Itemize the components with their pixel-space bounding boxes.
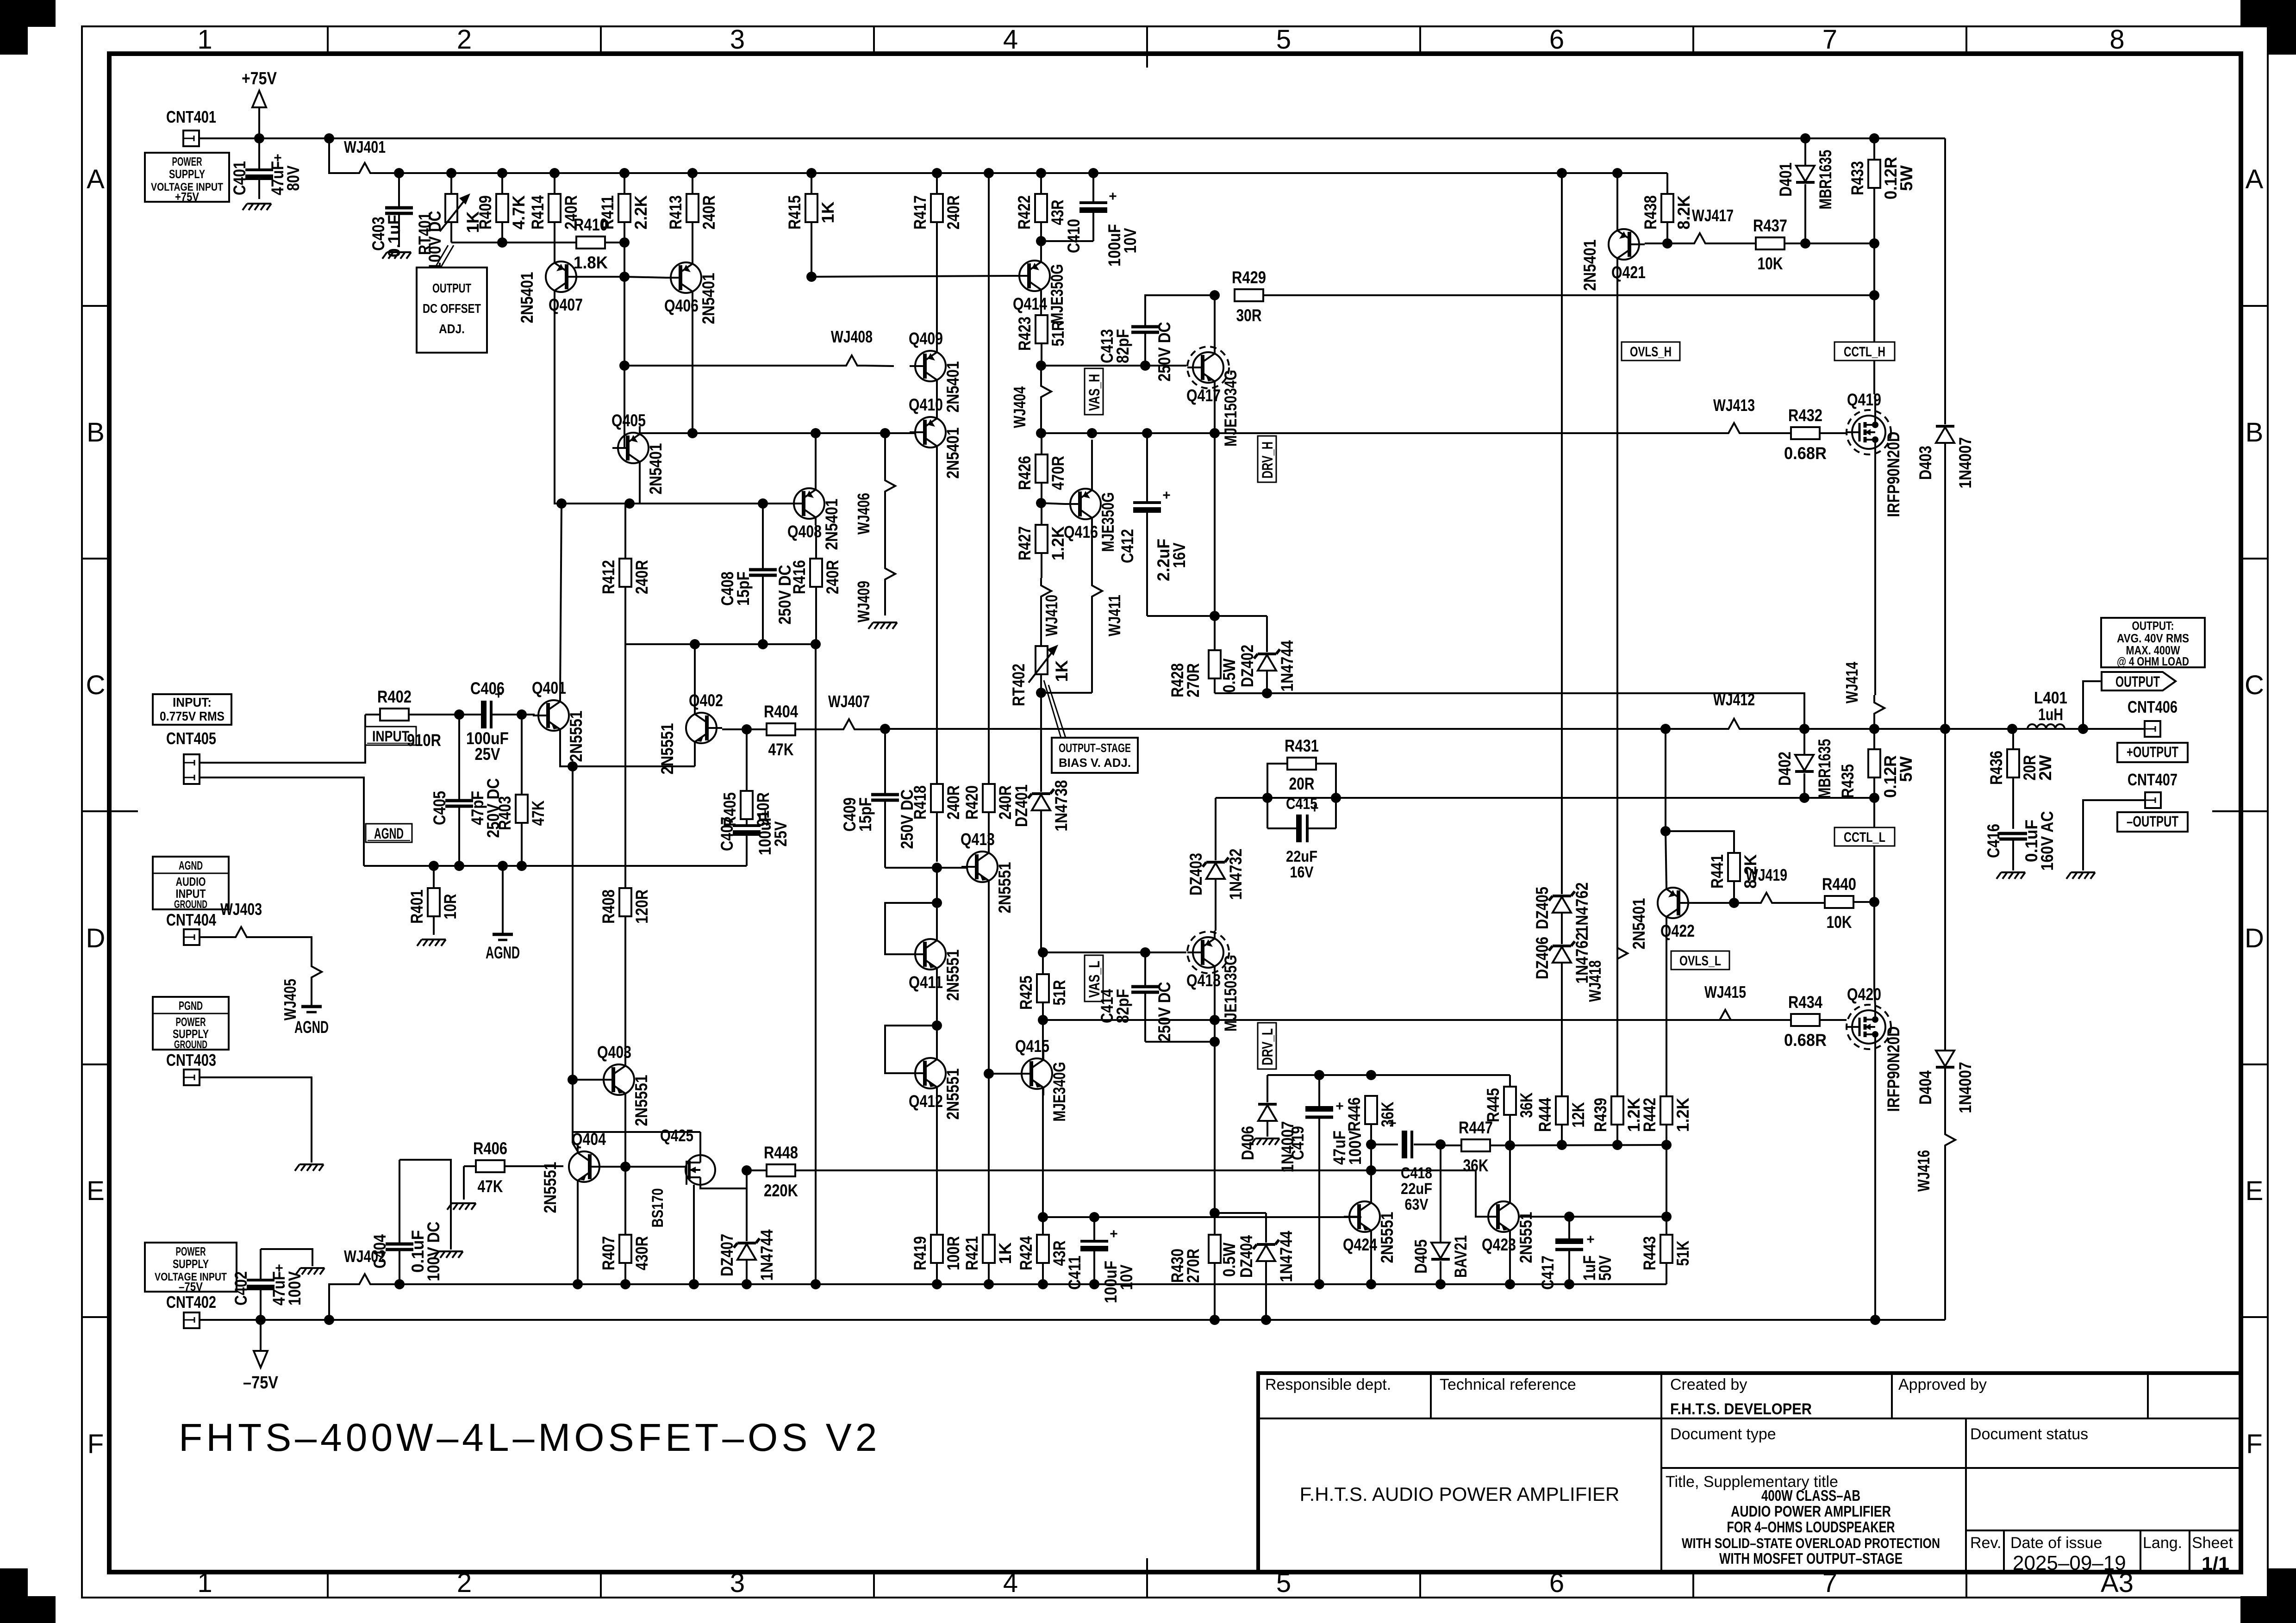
- svg-text:2N5551: 2N5551: [1378, 1212, 1397, 1263]
- mosfet Q420: [1847, 985, 1903, 1112]
- resistor R407: [599, 1094, 651, 1284]
- svg-text:Approved by: Approved by: [1898, 1376, 1987, 1393]
- ground below C403: [382, 252, 411, 259]
- resistor R445: [1484, 1087, 1536, 1122]
- wire to R421: [988, 1074, 990, 1235]
- node Q406 collector: [687, 428, 698, 438]
- svg-text:1N4744: 1N4744: [1278, 640, 1297, 691]
- node CCTL_L R440: [1869, 897, 1879, 907]
- node C402: [256, 1315, 266, 1325]
- svg-text:100V: 100V: [1346, 1131, 1365, 1165]
- svg-text:DRV_L: DRV_L: [1259, 1028, 1276, 1065]
- svg-text:–75V: –75V: [179, 1280, 203, 1293]
- svg-text:47K: 47K: [768, 740, 794, 759]
- svg-text:R435: R435: [1838, 764, 1857, 798]
- wire Q424 base line: [1043, 1216, 1361, 1218]
- svg-text:220K: 220K: [764, 1181, 798, 1200]
- svg-text:WJ412: WJ412: [1713, 690, 1755, 709]
- svg-text:+: +: [1109, 189, 1117, 204]
- wire DRV_H down: [1214, 433, 1216, 616]
- svg-text:Created by: Created by: [1670, 1376, 1747, 1393]
- svg-text:47K: 47K: [478, 1177, 503, 1196]
- svg-text:1N4732: 1N4732: [1226, 849, 1245, 900]
- svg-text:1K: 1K: [1052, 660, 1071, 682]
- node Q424 rail: [1366, 1279, 1376, 1289]
- svg-text:AGND: AGND: [179, 858, 203, 872]
- svg-text:Q424: Q424: [1343, 1235, 1377, 1254]
- svg-text:MBR1635: MBR1635: [1815, 739, 1834, 799]
- resistor R436: [1987, 729, 2055, 829]
- svg-text:1N4738: 1N4738: [1052, 780, 1071, 832]
- svg-text:2N5551: 2N5551: [567, 711, 586, 762]
- wire Q414 emitter: [1040, 241, 1042, 261]
- svg-text:Document status: Document status: [1970, 1425, 2088, 1443]
- svg-text:E: E: [87, 1176, 105, 1206]
- node RT401: [446, 168, 456, 178]
- svg-text:R427: R427: [1015, 526, 1034, 560]
- svg-text:WJ407: WJ407: [828, 692, 870, 711]
- wire rail to R438: [1666, 173, 1668, 194]
- wire Q425 source: [700, 1170, 747, 1188]
- wire jumper WJ414: [1842, 662, 1884, 729]
- wire -output to ground: [2083, 800, 2145, 871]
- node R441 bottom: [1729, 898, 1739, 908]
- wire input gnd: [200, 777, 364, 866]
- info box AGND: [153, 857, 229, 911]
- node C417 rail: [1564, 1279, 1574, 1289]
- wire Q404 coll to Q425 drain: [573, 1131, 700, 1133]
- info box PGND: [153, 997, 229, 1051]
- wire R445 to Q423: [1509, 1115, 1511, 1195]
- transistor Q409: [909, 329, 962, 413]
- connector CNT401: [166, 107, 216, 146]
- svg-text:IRFP90N20D: IRFP90N20D: [1884, 1026, 1903, 1112]
- wire output to R441 line: [1665, 729, 1666, 831]
- svg-text:1: 1: [197, 25, 212, 55]
- connector CNT404 label: [166, 910, 216, 929]
- svg-text:GROUND: GROUND: [174, 898, 207, 911]
- node R413: [687, 168, 698, 178]
- net label CCTL_L: [1834, 827, 1895, 846]
- svg-text:240R: 240R: [823, 560, 842, 594]
- node CCTL_H: [1869, 290, 1879, 300]
- svg-text:Q414: Q414: [1013, 294, 1047, 313]
- svg-text:100R: 100R: [944, 1236, 963, 1270]
- wire Q409 to Q410: [936, 388, 938, 410]
- node DZ402 bottom: [1262, 688, 1272, 698]
- resistor R401: [407, 866, 460, 935]
- node R421 rail: [984, 1279, 994, 1289]
- svg-text:F: F: [87, 1429, 104, 1459]
- capacitor C405: [430, 715, 503, 866]
- svg-text:C415: C415: [1286, 795, 1317, 813]
- svg-text:AGND: AGND: [486, 943, 520, 962]
- wire output line right: [1747, 728, 2145, 730]
- svg-text:INPUT:: INPUT:: [173, 695, 212, 709]
- wire Q412 base loop: [885, 1026, 937, 1073]
- wire jumper WJ404: [1010, 366, 1051, 433]
- node R435 bottom: [1869, 793, 1879, 803]
- svg-text:R409: R409: [476, 195, 495, 230]
- svg-text:F.H.T.S. AUDIO POWER AMPLIFIER: F.H.T.S. AUDIO POWER AMPLIFIER: [1300, 1483, 1620, 1505]
- capacitor C414: [1098, 952, 1174, 1042]
- svg-text:+: +: [1162, 488, 1171, 503]
- wire jumper WJ411: [1041, 520, 1124, 693]
- resistor R441: [1708, 853, 1760, 903]
- wire offset bus: [451, 242, 577, 243]
- title block frame: [1258, 1373, 2241, 1572]
- svg-text:R419: R419: [911, 1236, 930, 1270]
- node DRV_L Q418: [1210, 1015, 1220, 1025]
- resistor R412: [599, 504, 651, 644]
- wire Q420 source to rail: [1874, 1048, 1876, 1320]
- svg-text:@ 4 OHM LOAD: @ 4 OHM LOAD: [2117, 654, 2189, 668]
- connector CNT402 label: [166, 1293, 216, 1312]
- svg-text:22uF: 22uF: [1401, 1180, 1432, 1198]
- svg-text:R440: R440: [1822, 875, 1856, 894]
- node R439 bus: [1612, 1140, 1622, 1150]
- wire jumper WJ403: [220, 900, 262, 937]
- svg-text:R443: R443: [1640, 1236, 1659, 1270]
- svg-text:CNT404: CNT404: [166, 910, 216, 929]
- node R441 line: [1660, 826, 1671, 836]
- svg-text:240R: 240R: [699, 195, 718, 230]
- inductor L401: [2026, 688, 2067, 729]
- svg-text:D404: D404: [1916, 1070, 1935, 1105]
- resistor R448: [764, 1143, 798, 1200]
- svg-text:R401: R401: [407, 889, 426, 924]
- svg-text:470R: 470R: [1048, 456, 1067, 490]
- wire Q424 emitter: [1370, 1237, 1372, 1284]
- connector CNT404: [184, 929, 200, 945]
- resistor R416: [790, 525, 842, 644]
- wire Q423 emitter: [1509, 1237, 1511, 1284]
- wire Q401 collector: [560, 504, 562, 694]
- svg-text:+OUTPUT: +OUTPUT: [2127, 744, 2178, 760]
- node C411 rail: [1089, 1279, 1099, 1289]
- svg-text:R434: R434: [1788, 993, 1822, 1012]
- svg-text:+75V: +75V: [175, 190, 200, 204]
- title block text: [1265, 1376, 2233, 1574]
- svg-text:B: B: [87, 417, 105, 448]
- svg-text:5W: 5W: [1897, 165, 1916, 191]
- svg-text:47K: 47K: [529, 800, 548, 826]
- sheet name FHTS-400W-4L-MOSFET-OS V2: [179, 1416, 880, 1459]
- svg-text:WJ418: WJ418: [1585, 960, 1604, 1002]
- svg-text:0.775V RMS: 0.775V RMS: [160, 709, 225, 723]
- capacitor C403: [369, 173, 444, 271]
- node C419 top: [1314, 1070, 1324, 1080]
- wire R417 to Q409: [936, 336, 938, 344]
- zener DZ401: [1012, 780, 1071, 953]
- svg-text:3: 3: [730, 1568, 745, 1598]
- svg-text:WITH SOLID–STATE OVERLOAD PROT: WITH SOLID–STATE OVERLOAD PROTECTION: [1682, 1535, 1940, 1551]
- svg-text:F: F: [2246, 1429, 2262, 1459]
- svg-text:0.68R: 0.68R: [1784, 444, 1827, 463]
- svg-text:R421: R421: [962, 1236, 981, 1270]
- capacitor C416: [1984, 811, 2057, 871]
- svg-text:OUTPUT: OUTPUT: [432, 281, 471, 295]
- wire CNT404: [200, 936, 228, 938]
- node C414 top: [1140, 947, 1150, 958]
- net label -OUTPUT: [2117, 812, 2188, 832]
- svg-text:51R: 51R: [1048, 321, 1067, 347]
- svg-text:C407: C407: [717, 817, 736, 851]
- resistor R433: [1848, 138, 1916, 243]
- node R424 rail: [1038, 1279, 1048, 1289]
- wire output to D404: [1944, 729, 1946, 1051]
- svg-text:CNT403: CNT403: [166, 1051, 216, 1070]
- node R415: [806, 168, 817, 178]
- net label VAS_L: [1085, 955, 1103, 1001]
- node D401 bottom: [1800, 238, 1810, 249]
- node long vertical: [984, 168, 994, 178]
- svg-text:120R: 120R: [632, 889, 651, 924]
- wire WJ419 to R440: [1779, 902, 1825, 904]
- resistor R443: [1640, 1217, 1692, 1284]
- resistor R429: [1232, 268, 1266, 325]
- wire -75V rail: [200, 1319, 1945, 1321]
- transistor Q403: [597, 1043, 651, 1126]
- svg-text:R424: R424: [1017, 1236, 1036, 1270]
- svg-text:3: 3: [730, 25, 745, 55]
- resistor R437: [1753, 216, 1787, 273]
- wire DRV_H: [1041, 432, 1721, 434]
- node output feedback: [880, 724, 890, 734]
- wire WJ403 corner: [254, 937, 312, 959]
- svg-text:C410: C410: [1064, 219, 1083, 253]
- transistor Q423: [1482, 1195, 1535, 1263]
- connector CNT407: [2145, 792, 2161, 808]
- svg-text:WJ410: WJ410: [1042, 595, 1061, 636]
- capacitor C407: [717, 806, 790, 866]
- capacitor C409: [840, 729, 917, 868]
- transistor Q401: [532, 678, 586, 762]
- stub: [624, 1058, 626, 1065]
- svg-text:2N5401: 2N5401: [699, 273, 718, 324]
- wire WJ408 to Q409: [865, 366, 894, 366]
- ground below C416: [1997, 872, 2025, 879]
- wire R425 to Q415: [1042, 1020, 1044, 1058]
- wire y1392: [625, 643, 816, 645]
- svg-text:R445: R445: [1484, 1088, 1503, 1122]
- resistor R438: [1641, 194, 1693, 243]
- svg-text:WJ405: WJ405: [281, 979, 299, 1020]
- svg-text:R422: R422: [1015, 195, 1034, 230]
- node D402: [1799, 724, 1809, 734]
- wire Q411 base loop: [885, 903, 937, 954]
- transistor Q422: [1629, 881, 1695, 950]
- svg-text:240R: 240R: [944, 195, 963, 230]
- svg-text:DC OFFSET: DC OFFSET: [423, 301, 481, 316]
- svg-text:DZ401: DZ401: [1012, 784, 1031, 827]
- resistor R403: [495, 715, 548, 866]
- svg-text:2N5551: 2N5551: [995, 862, 1014, 914]
- net label VAS_H: [1085, 368, 1103, 415]
- wire Q416 emitter up: [1091, 440, 1093, 488]
- node D401 top: [1800, 133, 1810, 143]
- node Q421 emitter: [1612, 168, 1622, 178]
- svg-text:INPUT: INPUT: [372, 728, 409, 745]
- svg-text:R448: R448: [764, 1143, 798, 1162]
- svg-text:+: +: [1335, 1099, 1344, 1114]
- transistor Q421: [1580, 223, 1646, 291]
- node R414: [549, 168, 560, 178]
- node Q404 emitter rail: [573, 1279, 583, 1289]
- svg-text:50V: 50V: [1596, 1255, 1615, 1281]
- node Q425 R448: [742, 1165, 752, 1175]
- wire to WJ402: [329, 1284, 352, 1320]
- node R409 bottom: [497, 237, 507, 248]
- wire R431 left: [1267, 764, 1287, 798]
- node L401 out: [2078, 724, 2088, 734]
- svg-text:16V: 16V: [1170, 542, 1189, 568]
- svg-text:BAV21: BAV21: [1451, 1235, 1470, 1278]
- stub: [884, 867, 886, 869]
- svg-text:–75V: –75V: [243, 1373, 279, 1393]
- resistor R413: [666, 173, 718, 248]
- svg-text:C404: C404: [370, 1234, 389, 1269]
- node R431 C415 right: [1331, 793, 1341, 803]
- svg-text:DZ404: DZ404: [1237, 1235, 1256, 1278]
- wire rail to R420: [988, 173, 990, 784]
- wire to Q418 base: [1145, 951, 1186, 953]
- resistor R435: [1838, 729, 1915, 798]
- capacitor C410: [1041, 173, 1140, 267]
- svg-text:R410: R410: [574, 215, 608, 234]
- svg-text:Q425: Q425: [660, 1126, 693, 1145]
- svg-text:ADJ.: ADJ.: [439, 322, 465, 336]
- wire Q403 emitter: [624, 1095, 626, 1167]
- net label INPUT: [365, 727, 416, 745]
- svg-text:51K: 51K: [1673, 1240, 1692, 1266]
- svg-text:B: B: [2246, 417, 2264, 448]
- svg-text:BS170: BS170: [649, 1188, 667, 1228]
- svg-text:OVLS_L: OVLS_L: [1679, 953, 1721, 969]
- wire C413 top: [1145, 295, 1215, 326]
- resistor R427: [1015, 503, 1067, 578]
- svg-text:WJ415: WJ415: [1704, 983, 1746, 1001]
- node R415 bottom: [806, 272, 817, 282]
- svg-text:2N5551: 2N5551: [632, 1075, 651, 1126]
- diode D402: [1775, 729, 1834, 799]
- svg-text:CCTL_H: CCTL_H: [1844, 344, 1885, 360]
- svg-text:25V: 25V: [475, 745, 500, 764]
- node Q422 chain: [1660, 724, 1671, 734]
- svg-text:Q415: Q415: [1015, 1037, 1049, 1056]
- svg-text:910R: 910R: [407, 731, 441, 750]
- svg-text:C416: C416: [1984, 824, 2003, 858]
- svg-text:1N4744: 1N4744: [757, 1229, 776, 1281]
- wire Q423 base jog: [1371, 1170, 1483, 1217]
- svg-text:R406: R406: [473, 1139, 507, 1158]
- info box power supply -75V: [145, 1243, 237, 1293]
- wire jumper WJ410: [1041, 578, 1061, 646]
- wire DRV_L: [1043, 1019, 1829, 1021]
- node R407 rail: [620, 1279, 630, 1289]
- svg-text:WJ419: WJ419: [1746, 865, 1787, 884]
- svg-text:WJ414: WJ414: [1842, 662, 1861, 703]
- svg-text:Technical reference: Technical reference: [1440, 1376, 1576, 1393]
- wire C414 bottom: [1145, 1041, 1215, 1043]
- node C417 top: [1564, 1212, 1574, 1222]
- wire CCTL_H vertical: [1873, 243, 1875, 394]
- node R430 top: [1210, 1208, 1220, 1218]
- svg-text:2N5551: 2N5551: [541, 1162, 560, 1213]
- svg-text:0.68R: 0.68R: [1784, 1031, 1827, 1050]
- svg-text:2: 2: [457, 25, 472, 55]
- node R433 top: [1869, 133, 1879, 143]
- wire local rail: [378, 1283, 1666, 1285]
- resistor R446: [1345, 1096, 1397, 1144]
- svg-text:POWER: POWER: [176, 1244, 206, 1258]
- svg-text:WJ403: WJ403: [220, 900, 262, 919]
- wire LTP emitters: [560, 737, 695, 766]
- svg-text:82pF: 82pF: [1113, 329, 1132, 363]
- svg-text:Rev.: Rev.: [1970, 1534, 2001, 1552]
- resistor R439: [1591, 1096, 1643, 1145]
- svg-text:FHTS–400W–4L–MOSFET–OS V2: FHTS–400W–4L–MOSFET–OS V2: [179, 1416, 880, 1459]
- zener DZ404: [1237, 1213, 1296, 1320]
- svg-text:5W: 5W: [1897, 756, 1915, 782]
- transistor Q424: [1343, 1195, 1397, 1263]
- node D405 rail: [1435, 1279, 1446, 1289]
- svg-text:16V: 16V: [1290, 864, 1314, 881]
- wire CCTL_L line: [1216, 797, 1874, 799]
- resistor R414: [528, 173, 580, 262]
- info box input level: [153, 694, 231, 725]
- wire +75V to WJ401: [329, 138, 352, 173]
- svg-text:36K: 36K: [1517, 1092, 1536, 1118]
- transistor Q411: [909, 933, 962, 1001]
- wire Q402 base: [722, 728, 747, 730]
- wire mirror bus: [624, 365, 839, 367]
- node Q403 base: [568, 1075, 578, 1085]
- svg-text:22uF: 22uF: [1286, 848, 1317, 865]
- wire bus right: [1510, 1145, 1666, 1145]
- svg-text:82pF: 82pF: [1113, 989, 1132, 1023]
- node DRV_H left: [1036, 428, 1046, 438]
- svg-text:1N4007: 1N4007: [1956, 437, 1975, 489]
- wire to Q417 base: [1145, 365, 1186, 367]
- svg-text:250V DC: 250V DC: [1155, 982, 1174, 1042]
- svg-text:R412: R412: [599, 560, 618, 594]
- svg-text:MJE15034G: MJE15034G: [1221, 370, 1240, 447]
- svg-text:R404: R404: [764, 702, 798, 721]
- svg-text:2025–09–19: 2025–09–19: [2013, 1552, 2126, 1574]
- wire Q403 base: [573, 1079, 598, 1081]
- zener DZ407: [717, 1188, 776, 1284]
- svg-text:6: 6: [1549, 25, 1564, 55]
- wire Q411 to Q412: [936, 970, 938, 1058]
- transistor Q410: [909, 395, 962, 479]
- node Q413 base: [932, 863, 942, 873]
- svg-text:C405: C405: [430, 791, 449, 825]
- svg-text:2: 2: [457, 1568, 472, 1598]
- node R402 C405: [454, 709, 464, 720]
- svg-text:2N5401: 2N5401: [1580, 240, 1599, 291]
- svg-text:R437: R437: [1753, 216, 1787, 235]
- wire Q406 collector down: [692, 293, 693, 433]
- svg-text:R423: R423: [1015, 317, 1034, 351]
- node R430 rail: [1210, 1315, 1220, 1325]
- svg-text:Date of issue: Date of issue: [2010, 1534, 2102, 1552]
- svg-text:430R: 430R: [632, 1236, 651, 1270]
- ground CNT403: [295, 1164, 324, 1171]
- wire to WJ419: [1734, 902, 1753, 904]
- svg-text:10V: 10V: [1117, 1264, 1136, 1290]
- wire long down: [815, 644, 817, 1284]
